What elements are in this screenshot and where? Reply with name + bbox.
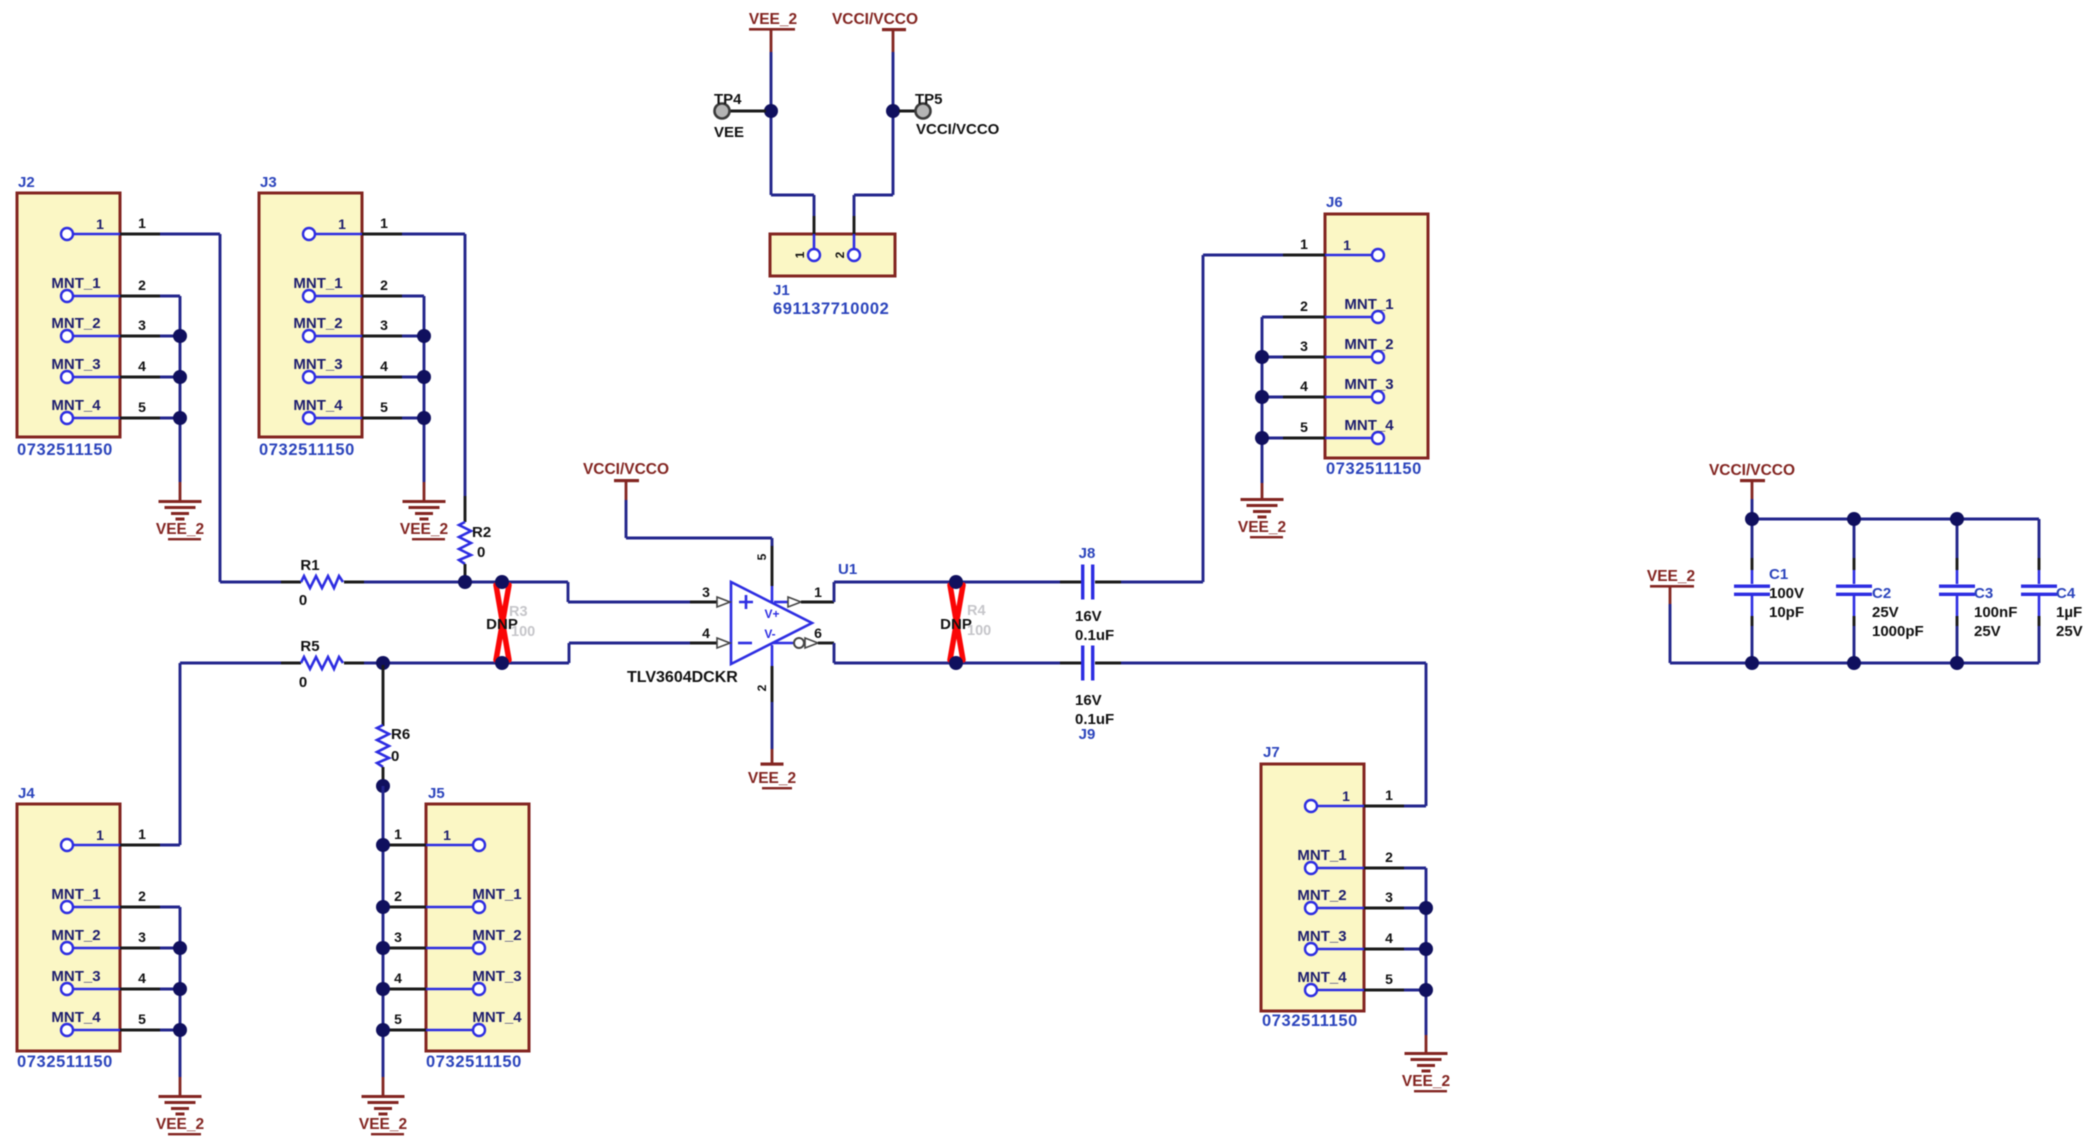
svg-text:16V: 16V — [1075, 692, 1102, 709]
svg-text:U1: U1 — [838, 561, 857, 578]
J5 pin 1 (1) — [394, 826, 485, 851]
svg-text:1: 1 — [380, 215, 388, 231]
junction J6 MNT_3 — [1255, 390, 1269, 404]
svg-text:0: 0 — [391, 748, 399, 765]
svg-text:MNT_3: MNT_3 — [51, 968, 100, 985]
resistor R2 0 ohm — [459, 496, 491, 580]
wire VEE_2 to bottom rail — [1669, 604, 1672, 663]
wire U1 out- to bottom row — [833, 643, 836, 663]
J7 pin 4 (MNT_3) — [1297, 928, 1393, 955]
J5 pin 2 (MNT_1) — [394, 886, 521, 913]
capacitor C1 100V 10pF — [1734, 519, 1804, 663]
junction J3 MNT_2 — [417, 329, 431, 343]
J1 pin 2 — [848, 249, 860, 261]
J4 pin 1 (1) — [61, 826, 146, 851]
svg-text:0732511150: 0732511150 — [17, 1053, 113, 1071]
wire top rail — [1752, 518, 2039, 521]
svg-text:TP5: TP5 — [915, 91, 943, 108]
connector J7 — [1261, 744, 1393, 1030]
U1 pin 5 (V+ supply) — [755, 545, 772, 603]
svg-text:25V: 25V — [2056, 623, 2083, 640]
resistor R6 0 ohm (vertical) — [377, 665, 410, 784]
test point TP4 (VEE) — [714, 91, 766, 141]
svg-text:4: 4 — [138, 970, 146, 986]
svg-text:4: 4 — [1385, 930, 1393, 946]
svg-text:6: 6 — [814, 625, 822, 641]
svg-text:0732511150: 0732511150 — [259, 441, 355, 459]
wire node A to U1 pin3 jog — [502, 581, 568, 584]
svg-text:VCCI/VCCO: VCCI/VCCO — [832, 11, 918, 28]
svg-text:5: 5 — [138, 1011, 146, 1027]
ground VEE_2 under J6 — [1238, 483, 1286, 538]
U1 pin 2 (V- supply) — [755, 645, 772, 702]
svg-text:R5: R5 — [300, 638, 319, 655]
J4 pin 5 (MNT_4) — [51, 1009, 146, 1036]
U1 minus input marker — [738, 642, 752, 645]
ground VEE_2 under J3 — [400, 482, 448, 540]
svg-text:4: 4 — [702, 625, 710, 641]
svg-text:V-: V- — [764, 627, 775, 641]
wire J7 MNT_2 stub — [1364, 907, 1404, 910]
wire J3 MNT_4 stub — [362, 417, 402, 420]
svg-text:5: 5 — [138, 399, 146, 415]
junction R6 bottom node — [376, 779, 390, 793]
capacitor J8 0.1uF 16V — [1060, 545, 1121, 644]
J3 pin 3 (MNT_2) — [293, 315, 388, 342]
capacitor C4 1µF 25V — [2021, 519, 2083, 663]
svg-text:3: 3 — [380, 317, 388, 333]
wire J5 MNT_1 stub — [388, 906, 426, 909]
wire bottom rail — [1752, 662, 2039, 665]
wire R5 to node B — [364, 662, 502, 665]
junction J2 MNT_3 — [173, 370, 187, 384]
wire J6 pin1 stub — [1283, 254, 1325, 257]
svg-text:5: 5 — [1300, 419, 1308, 435]
junction TP5 tap — [886, 104, 900, 118]
svg-text:MNT_3: MNT_3 — [51, 356, 100, 373]
J3 pin 5 (MNT_4) — [293, 397, 388, 424]
wire J2 MNT_3 stub — [120, 376, 160, 379]
wire J2 MNT bus — [179, 296, 182, 482]
svg-text:2: 2 — [380, 277, 388, 293]
svg-text:DNP: DNP — [486, 616, 518, 633]
svg-text:0.1uF: 0.1uF — [1075, 627, 1114, 644]
J6 pin 4 (MNT_3) — [1300, 376, 1393, 403]
svg-text:1µF: 1µF — [2056, 604, 2082, 621]
power VEE_2 (cap bank) — [1647, 568, 1695, 604]
junction J2 MNT_4 — [173, 411, 187, 425]
resistor R1 0 ohm — [220, 557, 364, 609]
J7 pin 5 (MNT_4) — [1297, 969, 1393, 996]
junction bottom rail C1 — [1745, 656, 1759, 670]
J2 pin 1 (1) — [61, 215, 146, 240]
junction J7 MNT_2 — [1419, 901, 1433, 915]
svg-text:VEE_2: VEE_2 — [1647, 568, 1695, 585]
svg-text:R2: R2 — [472, 524, 491, 541]
U1 pin 1 (OUT+) — [774, 584, 834, 607]
ground VEE_2 under J2 — [156, 482, 204, 540]
svg-text:VEE_2: VEE_2 — [1402, 1073, 1450, 1090]
svg-text:MNT_2: MNT_2 — [51, 927, 100, 944]
svg-text:MNT_1: MNT_1 — [293, 275, 342, 292]
J2 pin 5 (MNT_4) — [51, 397, 146, 424]
wire J7 MNT_1 stub — [1364, 867, 1404, 870]
svg-text:1: 1 — [814, 584, 822, 600]
svg-text:TP4: TP4 — [714, 91, 742, 108]
svg-text:MNT_3: MNT_3 — [472, 968, 521, 985]
wire node B to U1 pin4 jog — [502, 662, 569, 665]
svg-text:1: 1 — [338, 216, 346, 232]
wire J6 MNT_4 stub — [1283, 437, 1325, 440]
wire J6 MNT_1 stub — [1283, 316, 1325, 319]
svg-text:4: 4 — [138, 358, 146, 374]
U1 pin 4 (IN-) — [690, 625, 730, 648]
svg-text:2: 2 — [1300, 298, 1308, 314]
svg-text:MNT_2: MNT_2 — [1344, 336, 1393, 353]
wire J2 MNT_1 stub — [120, 295, 160, 298]
svg-text:J9: J9 — [1079, 726, 1096, 743]
power VCCI/VCCO above U1 — [583, 461, 669, 500]
wire J4 pin1 vertical to R5 row — [179, 663, 182, 845]
wire J4 pin1 stub — [120, 844, 160, 847]
ground VEE_2 under U1 (bar style) — [748, 749, 796, 789]
svg-text:0732511150: 0732511150 — [17, 441, 113, 459]
U1 pin 6 (OUT-) inverted — [772, 625, 834, 648]
svg-text:V+: V+ — [764, 607, 779, 621]
svg-text:1: 1 — [96, 827, 104, 843]
svg-text:2: 2 — [394, 888, 402, 904]
svg-text:C1: C1 — [1769, 566, 1788, 583]
wire J6 MNT_3 stub — [1283, 396, 1325, 399]
wire J7 MNT_4 stub — [1364, 989, 1404, 992]
svg-text:VEE_2: VEE_2 — [359, 1116, 407, 1133]
wire J6 MNT bus — [1261, 317, 1264, 483]
svg-text:4: 4 — [380, 358, 388, 374]
J4 pin 4 (MNT_3) — [51, 968, 146, 995]
J2 pin 2 (MNT_1) — [51, 275, 146, 302]
svg-text:2: 2 — [138, 888, 146, 904]
svg-text:4: 4 — [394, 970, 402, 986]
svg-text:MNT_3: MNT_3 — [1344, 376, 1393, 393]
J3 pin 2 (MNT_1) — [293, 275, 388, 302]
svg-text:VEE_2: VEE_2 — [748, 770, 796, 787]
wire J7 MNT bus — [1425, 868, 1428, 1035]
J7 pin 3 (MNT_2) — [1297, 887, 1393, 914]
svg-text:5: 5 — [380, 399, 388, 415]
svg-text:MNT_2: MNT_2 — [293, 315, 342, 332]
J4 pin 2 (MNT_1) — [51, 886, 146, 913]
svg-text:VCCI/VCCO: VCCI/VCCO — [1709, 462, 1795, 479]
junction top rail C3 — [1950, 512, 1964, 526]
wire J4 MNT_3 stub — [120, 988, 160, 991]
svg-text:1: 1 — [138, 215, 146, 231]
wire J4 MNT_1 stub — [120, 906, 160, 909]
svg-text:2: 2 — [138, 277, 146, 293]
junction R3 top — [495, 575, 509, 589]
svg-text:VCCI/VCCO: VCCI/VCCO — [916, 121, 1000, 138]
wire R1 to node A — [364, 581, 502, 584]
wire J7 pin1 stub — [1364, 805, 1404, 808]
svg-text:J1: J1 — [773, 282, 790, 299]
junction J4 MNT_4 — [173, 1023, 187, 1037]
svg-text:MNT_1: MNT_1 — [1344, 296, 1393, 313]
svg-text:5: 5 — [394, 1011, 402, 1027]
power VEE_2 (top) — [749, 11, 797, 52]
connector J1 691137710002 — [770, 216, 895, 318]
resistor R3 100 DNP (not populated) — [486, 585, 535, 660]
svg-text:MNT_3: MNT_3 — [293, 356, 342, 373]
svg-text:2: 2 — [1385, 849, 1393, 865]
svg-text:0: 0 — [477, 544, 485, 561]
svg-text:0732511150: 0732511150 — [1262, 1012, 1358, 1030]
wire VEE_2 to J1 pin1 — [770, 52, 773, 195]
svg-text:2: 2 — [755, 684, 769, 691]
J3 pin 1 (1) — [303, 215, 388, 240]
svg-text:C3: C3 — [1974, 585, 1993, 602]
connector J4 — [17, 785, 146, 1071]
svg-text:J4: J4 — [18, 785, 35, 802]
svg-text:3: 3 — [138, 929, 146, 945]
junction J3 MNT_3 — [417, 370, 431, 384]
svg-text:J2: J2 — [18, 174, 35, 191]
test point TP5 (VCCI/VCCO) — [899, 91, 1000, 138]
wire J3 MNT bus — [423, 296, 426, 482]
junction J6 MNT_2 — [1255, 350, 1269, 364]
connector J3 — [259, 174, 388, 459]
ground VEE_2 under J4 — [156, 1077, 204, 1135]
J7 pin 2 (MNT_1) — [1297, 847, 1393, 874]
svg-text:25V: 25V — [1974, 623, 2001, 640]
J6 pin 2 (MNT_1) — [1300, 296, 1393, 323]
junction node B (R5/R6) — [376, 656, 390, 670]
svg-text:J7: J7 — [1263, 744, 1280, 761]
svg-text:J3: J3 — [260, 174, 277, 191]
wire J4 MNT_4 stub — [120, 1029, 160, 1032]
J3 pin 4 (MNT_3) — [293, 356, 388, 383]
svg-text:VEE_2: VEE_2 — [1238, 519, 1286, 536]
resistor R4 100 DNP (not populated) — [940, 585, 991, 660]
svg-text:R1: R1 — [300, 557, 319, 574]
svg-text:0: 0 — [299, 674, 307, 691]
svg-text:MNT_1: MNT_1 — [472, 886, 521, 903]
svg-text:5: 5 — [1385, 971, 1393, 987]
svg-text:0732511150: 0732511150 — [426, 1053, 522, 1071]
wire J7 MNT_3 stub — [1364, 948, 1404, 951]
svg-text:VEE_2: VEE_2 — [156, 1116, 204, 1133]
junction R4 bottom — [949, 656, 963, 670]
svg-text:MNT_4: MNT_4 — [1297, 969, 1347, 986]
connector J5 — [394, 785, 529, 1071]
wire U1 out+ to top row — [833, 582, 836, 602]
junction J4 MNT_3 — [173, 982, 187, 996]
junction node A (R1/R2/R3) — [458, 575, 472, 589]
capacitor C2 25V 1000pF — [1836, 519, 1924, 663]
connector J6 — [1300, 194, 1428, 478]
wire J4 MNT bus — [179, 907, 182, 1077]
wire U1 pin2 to ground — [771, 702, 774, 749]
svg-text:0732511150: 0732511150 — [1326, 460, 1422, 478]
svg-text:1: 1 — [96, 216, 104, 232]
J5 pin 5 (MNT_4) — [394, 1009, 522, 1036]
svg-text:1: 1 — [1343, 237, 1351, 253]
junction J5 MNT_1 — [376, 900, 390, 914]
junction J3 MNT_4 — [417, 411, 431, 425]
svg-text:1000pF: 1000pF — [1872, 623, 1924, 640]
wire J6 MNT_2 stub — [1283, 356, 1325, 359]
wire J2 pin1 stub — [120, 233, 160, 236]
wire J2 MNT_4 stub — [120, 417, 160, 420]
svg-text:MNT_2: MNT_2 — [472, 927, 521, 944]
svg-text:100nF: 100nF — [1974, 604, 2017, 621]
junction R3 bottom — [495, 656, 509, 670]
svg-text:MNT_4: MNT_4 — [51, 1009, 101, 1026]
wire J4 MNT_2 stub — [120, 947, 160, 950]
junction R4 top — [949, 575, 963, 589]
junction J7 MNT_3 — [1419, 942, 1433, 956]
wire J3 MNT_1 stub — [362, 295, 402, 298]
svg-text:1: 1 — [1385, 787, 1393, 803]
svg-text:TLV3604DCKR: TLV3604DCKR — [627, 669, 738, 686]
svg-text:MNT_4: MNT_4 — [472, 1009, 522, 1026]
svg-text:VCCI/VCCO: VCCI/VCCO — [583, 461, 669, 478]
svg-text:MNT_2: MNT_2 — [1297, 887, 1346, 904]
power VCCI/VCCO (top) — [832, 11, 918, 52]
svg-text:1: 1 — [1342, 788, 1350, 804]
svg-text:1: 1 — [793, 251, 807, 258]
svg-text:J8: J8 — [1079, 545, 1096, 562]
svg-text:MNT_4: MNT_4 — [293, 397, 343, 414]
svg-text:1: 1 — [138, 826, 146, 842]
svg-text:MNT_1: MNT_1 — [1297, 847, 1346, 864]
svg-text:J6: J6 — [1326, 194, 1343, 211]
junction J6 MNT_4 — [1255, 431, 1269, 445]
svg-text:1: 1 — [394, 826, 402, 842]
svg-text:3: 3 — [138, 317, 146, 333]
wire J3 pin1 vertical to R2 — [464, 234, 467, 496]
wire VCC to U1 pin5 — [625, 500, 628, 538]
svg-text:3: 3 — [1300, 338, 1308, 354]
ground VEE_2 under J7 — [1402, 1035, 1450, 1092]
svg-text:MNT_1: MNT_1 — [51, 886, 100, 903]
svg-text:3: 3 — [702, 584, 710, 600]
svg-text:C4: C4 — [2056, 585, 2076, 602]
svg-text:C2: C2 — [1872, 585, 1891, 602]
svg-text:DNP: DNP — [940, 616, 972, 633]
svg-text:VEE_2: VEE_2 — [156, 521, 204, 538]
svg-text:MNT_1: MNT_1 — [51, 275, 100, 292]
connector J2 — [17, 174, 146, 459]
svg-text:10pF: 10pF — [1769, 604, 1804, 621]
power VCCI/VCCO (cap bank) — [1709, 462, 1795, 499]
junction top rail C2 — [1847, 512, 1861, 526]
wire VCC to top rail — [1751, 499, 1754, 519]
wire J3 MNT_3 stub — [362, 376, 402, 379]
wire J5 MNT_2 stub — [388, 947, 426, 950]
J2 pin 4 (MNT_3) — [51, 356, 146, 383]
capacitor J9 0.1uF 16V — [1060, 646, 1121, 744]
svg-text:1: 1 — [443, 827, 451, 843]
svg-text:MNT_4: MNT_4 — [1344, 417, 1394, 434]
svg-text:1: 1 — [1300, 236, 1308, 252]
svg-text:VEE_2: VEE_2 — [749, 11, 797, 28]
svg-text:100V: 100V — [1769, 585, 1804, 602]
junction bottom rail C3 — [1950, 656, 1964, 670]
svg-text:16V: 16V — [1075, 608, 1102, 625]
wire J2 MNT_2 stub — [120, 335, 160, 338]
op-amp U1 TLV3604DCKR comparator — [627, 561, 857, 686]
junction J5 pin1 — [376, 838, 390, 852]
svg-text:MNT_3: MNT_3 — [1297, 928, 1346, 945]
wire VCCI/VCCO to J1 pin2 — [892, 52, 895, 195]
svg-text:25V: 25V — [1872, 604, 1899, 621]
J7 pin 1 (1) — [1305, 787, 1393, 812]
J5 pin 4 (MNT_3) — [394, 968, 521, 995]
svg-text:4: 4 — [1300, 378, 1308, 394]
junction J5 MNT_4 — [376, 1023, 390, 1037]
junction bottom rail C2 — [1847, 656, 1861, 670]
wire J5 MNT_4 stub — [388, 1029, 426, 1032]
U1 plus input marker — [739, 595, 753, 609]
J1 pin 1 — [808, 249, 820, 261]
wire J3 pin1 stub — [362, 233, 402, 236]
wire J5 MNT_3 stub — [388, 988, 426, 991]
svg-text:VEE: VEE — [714, 124, 744, 141]
ground VEE_2 under J5 — [359, 1077, 407, 1135]
J4 pin 3 (MNT_2) — [51, 927, 146, 954]
junction J5 MNT_2 — [376, 941, 390, 955]
junction top rail C1 — [1745, 512, 1759, 526]
resistor R5 0 ohm — [180, 638, 364, 691]
svg-text:2: 2 — [833, 251, 847, 258]
wire J3 MNT_2 stub — [362, 335, 402, 338]
junction J7 MNT_4 — [1419, 983, 1433, 997]
svg-text:3: 3 — [394, 929, 402, 945]
junction TP4 tap — [764, 104, 778, 118]
J6 pin 1 (1) — [1300, 236, 1384, 261]
J6 pin 3 (MNT_2) — [1300, 336, 1393, 363]
junction J5 MNT_3 — [376, 982, 390, 996]
svg-text:MNT_4: MNT_4 — [51, 397, 101, 414]
junction J4 MNT_2 — [173, 941, 187, 955]
svg-text:R6: R6 — [391, 726, 410, 743]
U1 pin 3 (IN+) — [690, 584, 730, 607]
wire J2 pin1 vertical to R1 row — [219, 234, 222, 582]
wire J5 pin1 stub — [388, 844, 426, 847]
capacitor C3 100nF 25V — [1939, 519, 2017, 663]
svg-text:5: 5 — [755, 553, 769, 560]
svg-text:691137710002: 691137710002 — [773, 300, 889, 318]
svg-text:MNT_2: MNT_2 — [51, 315, 100, 332]
svg-text:VEE_2: VEE_2 — [400, 521, 448, 538]
svg-text:3: 3 — [1385, 889, 1393, 905]
J2 pin 3 (MNT_2) — [51, 315, 146, 342]
wire R6 to J5 bus / ground — [382, 786, 385, 1077]
wire J9 to J7 pin1 — [1121, 662, 1426, 665]
J6 pin 5 (MNT_4) — [1300, 417, 1394, 444]
J5 pin 3 (MNT_2) — [394, 927, 521, 954]
wire J8 to J6 pin1 — [1121, 581, 1203, 584]
svg-text:0: 0 — [299, 592, 307, 609]
junction J2 MNT_2 — [173, 329, 187, 343]
svg-text:J5: J5 — [428, 785, 445, 802]
